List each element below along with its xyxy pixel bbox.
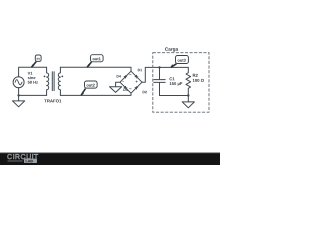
watermark CircuitLab logo — [7, 154, 38, 163]
label D4 — [117, 75, 121, 77]
transformer polarity dot secondary — [61, 76, 63, 78]
wire: V1 top to transformer primary top — [19, 67, 47, 77]
bridge mark + — [136, 80, 138, 82]
ground (under V1) — [13, 101, 25, 107]
bridge rectifier diamond — [120, 71, 142, 93]
junction node at R2 bottom — [187, 94, 189, 96]
label V1 value — [28, 72, 33, 75]
watermark bar — [0, 153, 220, 165]
wire: bridge plus through riser to load — [142, 67, 188, 82]
node tag out2 — [81, 81, 97, 95]
transformer secondary winding — [58, 67, 60, 95]
transformer core — [52, 72, 54, 91]
node tag out1 — [87, 55, 103, 68]
diode D2 on bottom-right edge — [135, 86, 138, 89]
wire: V1 bottom lead — [18, 88, 20, 101]
diode D1 on top-right edge — [135, 75, 138, 78]
wire: secondary top rail to bridge — [60, 67, 131, 71]
label C1 value — [169, 77, 174, 80]
transformer TRAFO1 primary winding — [47, 67, 49, 95]
wire: secondary bottom rail to bridge — [60, 93, 131, 95]
Cargo dashed box — [153, 53, 209, 112]
voltage source V1 — [13, 77, 24, 88]
label R2 value — [193, 74, 198, 77]
label TRAFO1 — [44, 99, 61, 102]
label Carga — [165, 47, 178, 51]
transformer polarity dot primary — [44, 76, 46, 78]
bridge mark ~ bottom — [129, 87, 131, 90]
wire: load bottom rail — [160, 95, 189, 97]
diode D3 on bottom-left edge — [124, 86, 127, 89]
label D2 — [143, 91, 147, 93]
wire: bridge minus to ground — [116, 82, 120, 87]
ground (load) — [182, 102, 194, 108]
capacitor C1 — [154, 67, 165, 95]
node tag out3 — [171, 56, 189, 68]
node tag in — [31, 55, 41, 67]
ground (bridge) — [110, 87, 122, 93]
bridge mark ~ top — [129, 73, 131, 76]
wire: primary bottom rail — [19, 94, 47, 96]
junction node at C1 top — [158, 66, 160, 68]
junction node at V1 ground — [17, 94, 19, 96]
diode D4 on top-left edge — [124, 75, 127, 78]
label D1 — [138, 69, 142, 71]
label D3 — [123, 89, 127, 91]
resistor R2 — [186, 67, 191, 102]
bridge mark - — [122, 80, 123, 83]
